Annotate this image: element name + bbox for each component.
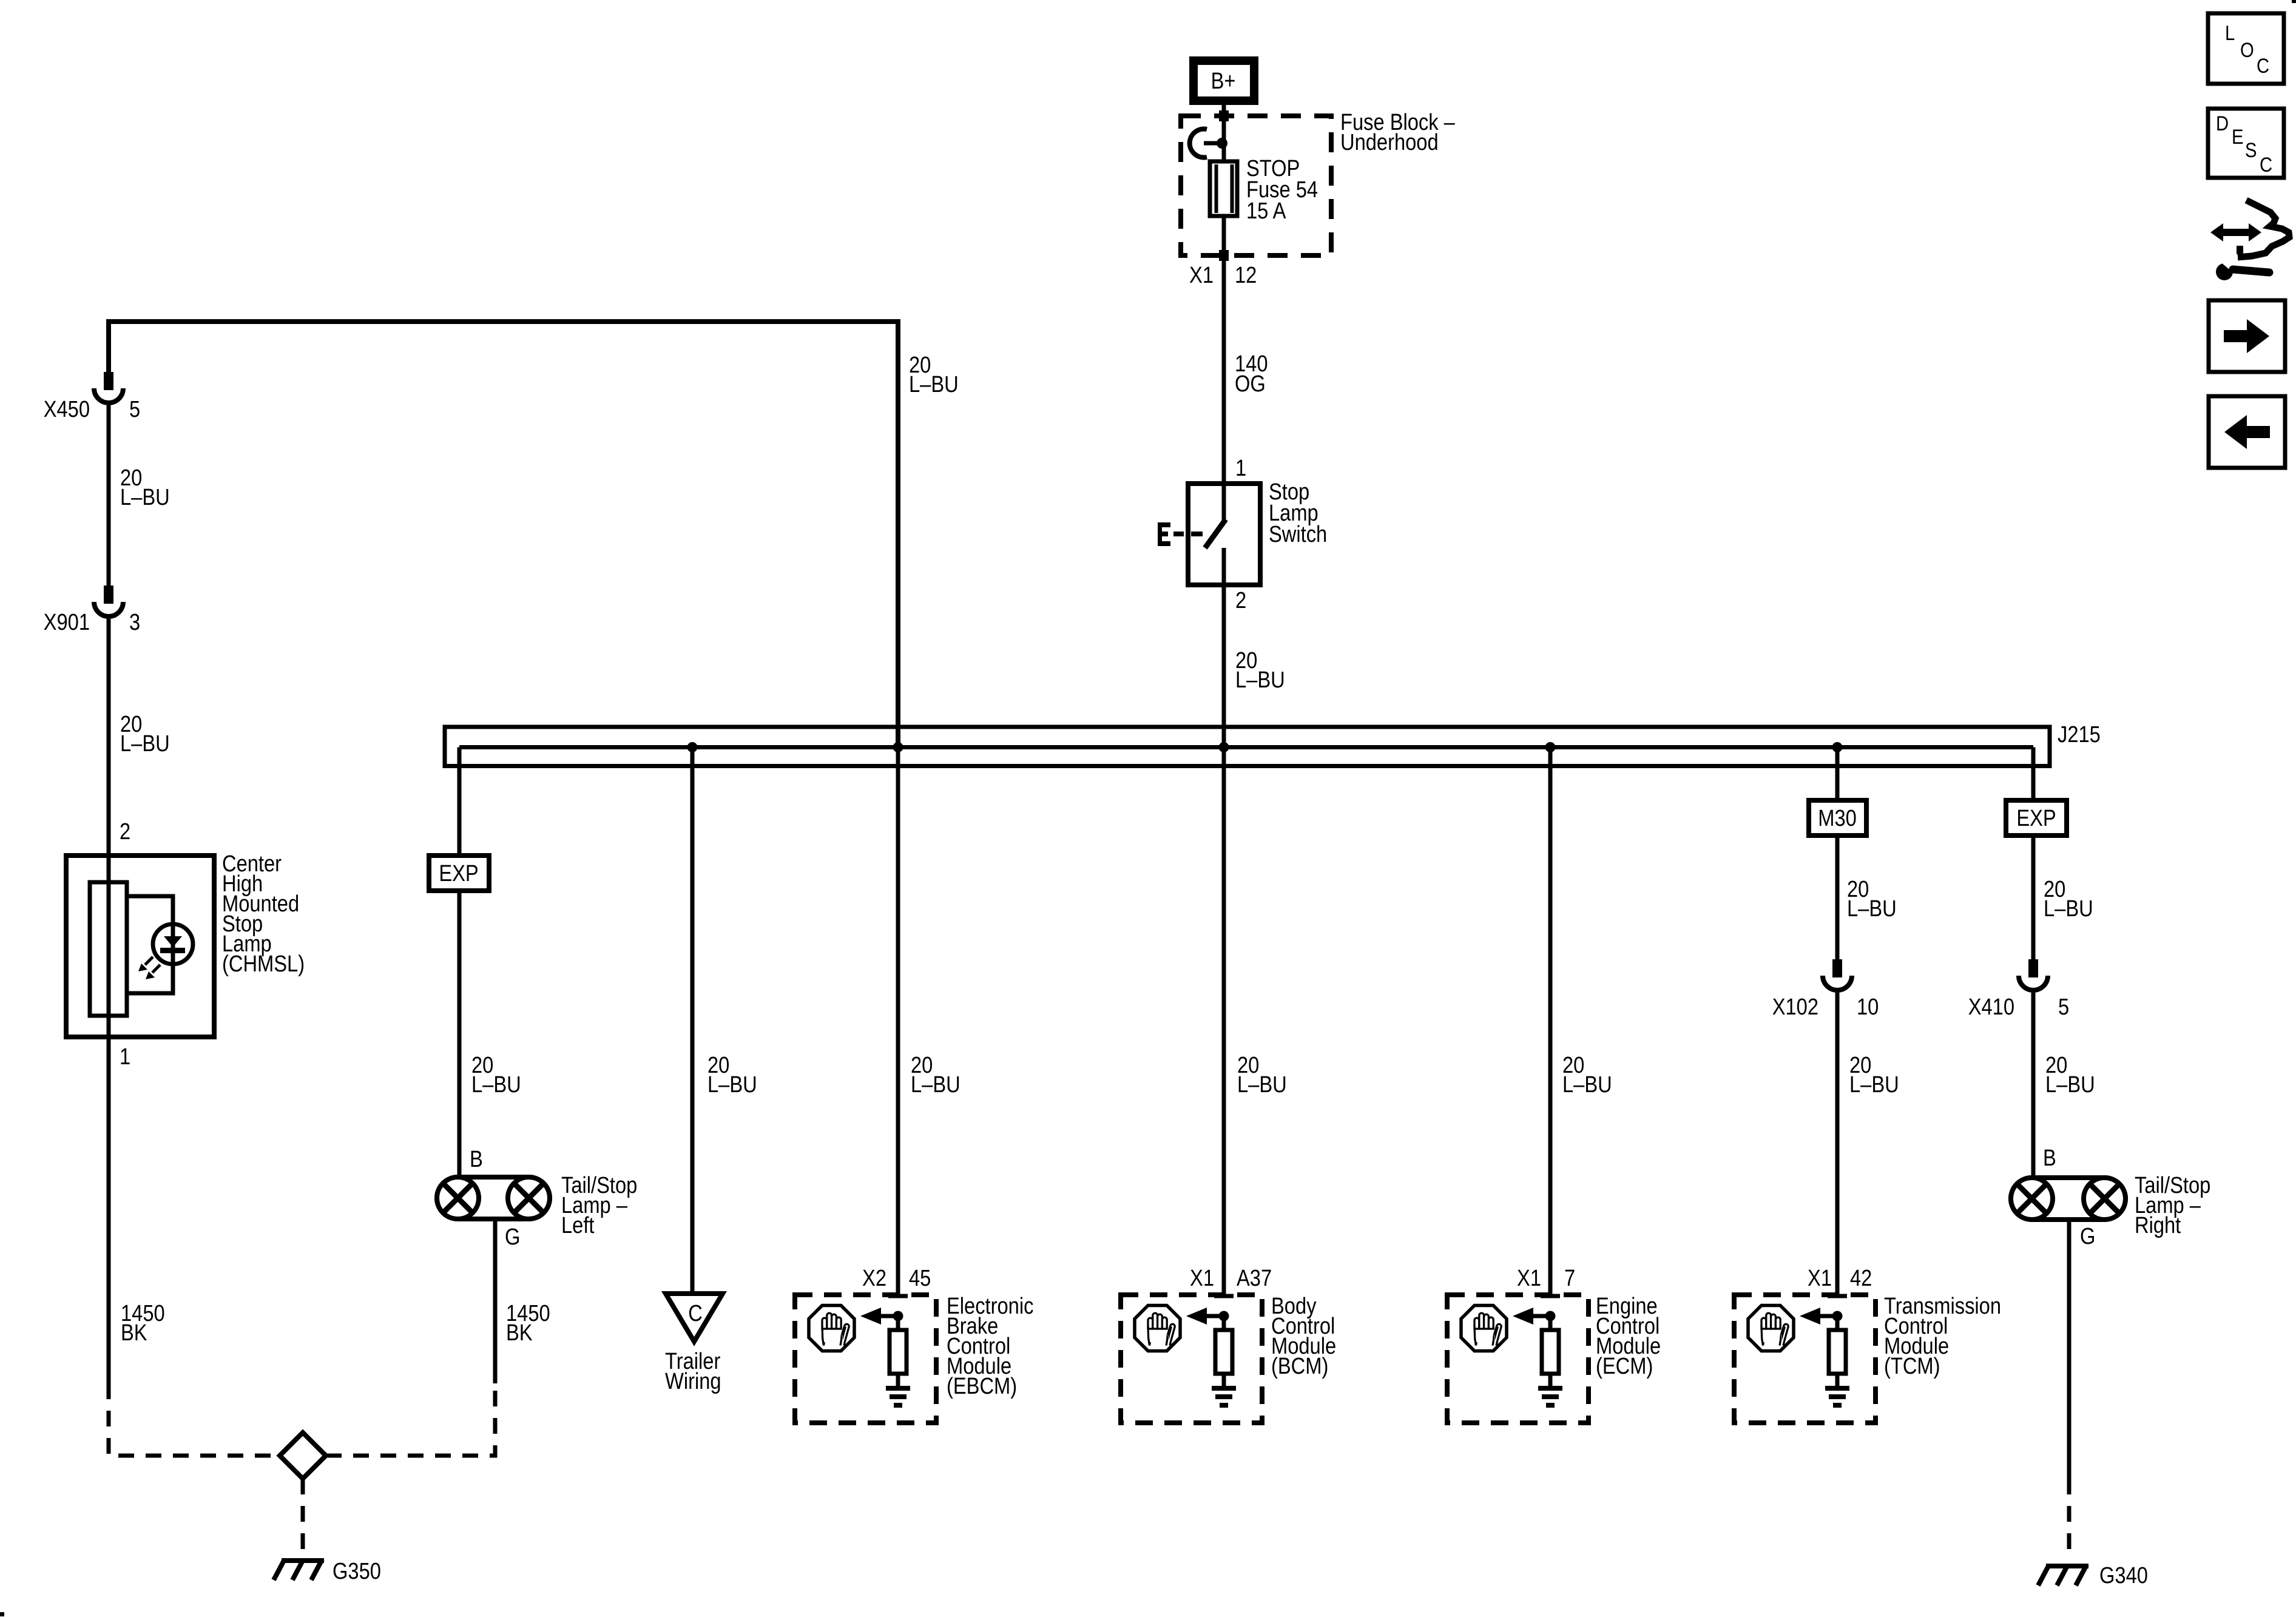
label fuse block underhood bbox=[1340, 109, 1455, 155]
svg-text:BK: BK bbox=[506, 1320, 533, 1346]
svg-text:X1: X1 bbox=[1808, 1265, 1832, 1291]
BCM internal signal arrow bbox=[1186, 1308, 1224, 1325]
TCM module box bbox=[1734, 1294, 1876, 1423]
connector X450 bbox=[94, 372, 123, 403]
TCM junction dot bbox=[1832, 1311, 1843, 1322]
wire label 20 L-BU EBCM branch bbox=[911, 1052, 961, 1098]
wire lamp right G to ground bbox=[2067, 1220, 2071, 1479]
label tail/stop lamp left bbox=[561, 1172, 637, 1238]
BCM pin labels X1 A37 bbox=[1190, 1265, 1272, 1291]
svg-text:X901: X901 bbox=[44, 609, 90, 635]
svg-text:D: D bbox=[2216, 112, 2229, 135]
BCM load resistor bbox=[1215, 1330, 1232, 1374]
svg-text:7: 7 bbox=[1564, 1265, 1575, 1291]
fuse block - underhood dashed box bbox=[1181, 116, 1331, 255]
ECM pin labels X1 7 bbox=[1517, 1265, 1575, 1291]
bus bar symbol bbox=[1190, 129, 1227, 157]
svg-text:L: L bbox=[2225, 21, 2235, 45]
svg-text:S: S bbox=[2245, 138, 2257, 162]
svg-text:G340: G340 bbox=[2099, 1562, 2148, 1588]
svg-text:OG: OG bbox=[1235, 371, 1266, 397]
ECM wire to ground bbox=[1548, 1374, 1553, 1386]
wire fuse to switch bbox=[1222, 216, 1226, 521]
tail/stop lamp left bbox=[437, 1177, 550, 1219]
svg-text:C: C bbox=[2257, 54, 2269, 78]
svg-text:L–BU: L–BU bbox=[1847, 896, 1897, 922]
wire label 1450 BK left bbox=[121, 1300, 165, 1346]
svg-text:42: 42 bbox=[1850, 1265, 1872, 1291]
BCM module box bbox=[1121, 1294, 1262, 1423]
label ECM bbox=[1596, 1293, 1661, 1379]
svg-text:X2: X2 bbox=[862, 1265, 886, 1291]
dashed ground wire left bbox=[109, 1383, 280, 1456]
tail/stop lamp right bbox=[2011, 1178, 2125, 1220]
ground G350 bbox=[274, 1559, 324, 1580]
wire label 20 L-BU bbox=[471, 1052, 521, 1098]
wire label 20 L-BU ECM branch bbox=[1562, 1052, 1612, 1098]
EBCM junction dot bbox=[893, 1311, 903, 1322]
stop lamp switch bbox=[1188, 484, 1260, 585]
wire bus to trailer wiring bbox=[690, 748, 695, 1294]
wire label 20 L-BU bbox=[1847, 876, 1897, 922]
TCM wire to ground bbox=[1835, 1374, 1840, 1386]
svg-text:A37: A37 bbox=[1237, 1265, 1272, 1291]
TCM load resistor bbox=[1829, 1330, 1846, 1374]
svg-text:5: 5 bbox=[129, 396, 140, 422]
TCM internal signal arrow bbox=[1800, 1308, 1837, 1325]
BCM junction dot bbox=[1219, 1311, 1229, 1322]
label stop lamp switch bbox=[1269, 479, 1327, 547]
svg-text:J215: J215 bbox=[2058, 721, 2101, 748]
BCM internal ground bbox=[1212, 1386, 1236, 1408]
top left feed wire bbox=[109, 322, 898, 748]
wire bus to ECM bbox=[1548, 748, 1553, 1295]
label EBCM bbox=[947, 1293, 1033, 1399]
wire bus to M30 bbox=[1835, 748, 1840, 801]
svg-text:C: C bbox=[688, 1300, 703, 1326]
svg-text:X1: X1 bbox=[1189, 262, 1214, 288]
svg-text:(TCM): (TCM) bbox=[1884, 1353, 1940, 1379]
fuse STOP Fuse 54 15A bbox=[1210, 161, 1237, 216]
svg-text:(BCM): (BCM) bbox=[1271, 1353, 1328, 1379]
svg-text:L–BU: L–BU bbox=[1235, 667, 1285, 693]
svg-text:Switch: Switch bbox=[1269, 521, 1327, 547]
ground G340 bbox=[2038, 1565, 2088, 1585]
wire label 1450 BK right bbox=[506, 1300, 550, 1346]
J215 splice pack bus bbox=[445, 727, 2050, 766]
svg-text:L–BU: L–BU bbox=[911, 1072, 961, 1098]
svg-text:3: 3 bbox=[129, 609, 140, 635]
svg-text:L–BU: L–BU bbox=[120, 484, 170, 510]
dashed wire diamond to ground bbox=[301, 1479, 305, 1557]
wire label 20 L-BU trunk bbox=[1235, 647, 1285, 693]
svg-text:(ECM): (ECM) bbox=[1596, 1353, 1653, 1379]
trailer wiring triangle bbox=[666, 1294, 723, 1342]
CHMSL lamp element bbox=[90, 882, 127, 1016]
EBCM load resistor bbox=[890, 1330, 907, 1374]
TCM internal wire bbox=[1835, 1316, 1840, 1330]
svg-text:L–BU: L–BU bbox=[2044, 896, 2093, 922]
EXP box right bbox=[2006, 800, 2067, 836]
wire switch to bus bbox=[1222, 585, 1226, 1295]
wire lamp left G to splice bbox=[493, 1219, 498, 1383]
svg-text:2: 2 bbox=[120, 819, 130, 845]
wire label 20 L-BU bbox=[120, 711, 170, 757]
svg-text:M30: M30 bbox=[1818, 805, 1857, 831]
label BCM bbox=[1271, 1293, 1336, 1379]
connector X901 bbox=[94, 586, 123, 616]
svg-text:L–BU: L–BU bbox=[707, 1072, 757, 1098]
ECM junction dot bbox=[1545, 1311, 1556, 1322]
TCM pin labels X1 42 bbox=[1808, 1265, 1872, 1291]
wire X102 to TCM bbox=[1835, 993, 1840, 1295]
svg-text:BK: BK bbox=[121, 1320, 147, 1346]
svg-text:(CHMSL): (CHMSL) bbox=[222, 951, 305, 977]
LED light emission arrows bbox=[138, 957, 160, 979]
junction dots on bus bbox=[687, 742, 1843, 752]
label TCM bbox=[1884, 1293, 2001, 1379]
svg-text:1: 1 bbox=[120, 1044, 130, 1070]
DESC icon box bbox=[2208, 109, 2284, 178]
wire label 20 L-BU corner bbox=[909, 352, 959, 397]
svg-text:B: B bbox=[2043, 1145, 2056, 1171]
svg-text:L–BU: L–BU bbox=[471, 1072, 521, 1098]
label CHMSL bbox=[222, 851, 305, 977]
wire bus to EXP left bbox=[458, 748, 462, 856]
dashed wire to G340 bbox=[2067, 1479, 2071, 1557]
TCM stop-hand octagon bbox=[1748, 1306, 1794, 1351]
svg-text:10: 10 bbox=[1857, 994, 1879, 1020]
wire X901 to CHMSL bbox=[107, 619, 111, 1383]
BCM wire to ground bbox=[1222, 1374, 1226, 1386]
ECM internal signal arrow bbox=[1513, 1308, 1550, 1325]
wire M30 to X102 bbox=[1835, 836, 1840, 959]
svg-text:X450: X450 bbox=[44, 396, 90, 422]
service icon arrow wrench bbox=[2210, 200, 2289, 280]
previous page arrow icon bbox=[2209, 396, 2285, 468]
wire EXP to X410 bbox=[2031, 836, 2036, 959]
ECM module box bbox=[1447, 1294, 1589, 1423]
svg-text:X410: X410 bbox=[1968, 994, 2014, 1020]
wire label 20 L-BU bbox=[2044, 876, 2093, 922]
svg-text:L–BU: L–BU bbox=[1849, 1072, 1899, 1098]
svg-text:L–BU: L–BU bbox=[1562, 1072, 1612, 1098]
pin tick X1-12 bottom bbox=[1219, 250, 1229, 261]
svg-text:L–BU: L–BU bbox=[120, 731, 170, 757]
svg-text:(EBCM): (EBCM) bbox=[947, 1373, 1017, 1399]
svg-text:2: 2 bbox=[1235, 587, 1246, 613]
CHMSL lamp housing box bbox=[66, 856, 214, 1037]
svg-text:O: O bbox=[2240, 38, 2254, 62]
EBCM stop-hand octagon bbox=[809, 1306, 854, 1351]
wire label 140 OG bbox=[1235, 351, 1268, 397]
ECM load resistor bbox=[1542, 1330, 1559, 1374]
svg-text:L–BU: L–BU bbox=[2045, 1072, 2095, 1098]
LED CHMSL diode bbox=[153, 924, 193, 964]
EBCM wire to ground bbox=[896, 1374, 900, 1386]
wire LED branch bbox=[127, 896, 173, 993]
wire label 20 L-BU bbox=[1849, 1052, 1899, 1098]
wire X410 to tail lamp right bbox=[2031, 993, 2036, 1178]
EXP box left bbox=[429, 856, 489, 891]
label trailer wiring bbox=[665, 1348, 721, 1394]
BCM stop-hand octagon bbox=[1135, 1306, 1180, 1351]
BCM internal wire bbox=[1222, 1316, 1226, 1330]
wire X450 to X901 bbox=[107, 405, 111, 586]
svg-text:C: C bbox=[2260, 153, 2272, 177]
EBCM module box bbox=[795, 1294, 936, 1423]
wire label 20 L-BU bbox=[707, 1052, 757, 1098]
svg-text:B: B bbox=[470, 1146, 483, 1172]
dashed wire diamond to right bbox=[326, 1383, 495, 1456]
EBCM internal signal arrow bbox=[860, 1308, 898, 1325]
wire B+ to fuse block bbox=[1222, 105, 1226, 161]
wire EBCM branch bbox=[896, 748, 900, 1295]
svg-text:Left: Left bbox=[561, 1212, 595, 1238]
TCM internal ground bbox=[1825, 1386, 1849, 1408]
svg-text:5: 5 bbox=[2058, 994, 2069, 1020]
splice diamond bbox=[280, 1433, 326, 1479]
EBCM internal wire bbox=[896, 1316, 900, 1330]
svg-text:15 A: 15 A bbox=[1246, 198, 1286, 224]
svg-text:Right: Right bbox=[2135, 1212, 2181, 1238]
svg-text:Underhood: Underhood bbox=[1340, 129, 1439, 155]
connector X102 bbox=[1823, 959, 1852, 990]
ECM internal ground bbox=[1538, 1386, 1562, 1408]
label fuse bbox=[1246, 155, 1318, 224]
switch actuator E linkage bbox=[1158, 522, 1203, 546]
svg-text:G350: G350 bbox=[333, 1558, 381, 1584]
wire bus to EXP right bbox=[2031, 748, 2036, 801]
B+ power symbol bbox=[1194, 61, 1254, 101]
svg-text:X102: X102 bbox=[1772, 994, 1818, 1020]
svg-text:X1: X1 bbox=[1190, 1265, 1214, 1291]
wire EXP to tail lamp left bbox=[458, 891, 462, 1177]
wire label 20 L-BU bbox=[120, 465, 170, 510]
EBCM internal ground bbox=[886, 1386, 910, 1408]
pin labels X1 12 bbox=[1189, 262, 1257, 288]
svg-text:L–BU: L–BU bbox=[1237, 1072, 1287, 1098]
svg-text:Wiring: Wiring bbox=[665, 1368, 721, 1394]
page corner artifact top right bbox=[2292, 0, 2296, 3]
pin tick X1-12 top bbox=[1219, 110, 1229, 121]
svg-text:L–BU: L–BU bbox=[909, 371, 959, 397]
connector X410 bbox=[2019, 959, 2048, 990]
svg-text:EXP: EXP bbox=[439, 860, 478, 886]
svg-text:G: G bbox=[505, 1224, 520, 1250]
svg-text:X1: X1 bbox=[1517, 1265, 1541, 1291]
M30 box bbox=[1809, 800, 1866, 836]
wire label 20 L-BU bbox=[2045, 1052, 2095, 1098]
svg-text:12: 12 bbox=[1235, 262, 1257, 288]
ECM stop-hand octagon bbox=[1461, 1306, 1507, 1351]
wire label 20 L-BU BCM branch bbox=[1237, 1052, 1287, 1098]
LOC icon box bbox=[2208, 13, 2284, 84]
page corner dot bbox=[0, 1612, 4, 1616]
svg-text:G: G bbox=[2080, 1223, 2095, 1249]
ECM internal wire bbox=[1548, 1316, 1553, 1330]
svg-text:EXP: EXP bbox=[2016, 805, 2056, 831]
label tail/stop lamp right bbox=[2135, 1172, 2210, 1238]
next page arrow icon bbox=[2209, 300, 2285, 372]
svg-text:B+: B+ bbox=[1211, 68, 1236, 94]
svg-text:45: 45 bbox=[909, 1265, 931, 1291]
EBCM pin labels X2 45 bbox=[862, 1265, 931, 1291]
svg-text:E: E bbox=[2232, 125, 2243, 149]
svg-text:1: 1 bbox=[1235, 455, 1246, 481]
